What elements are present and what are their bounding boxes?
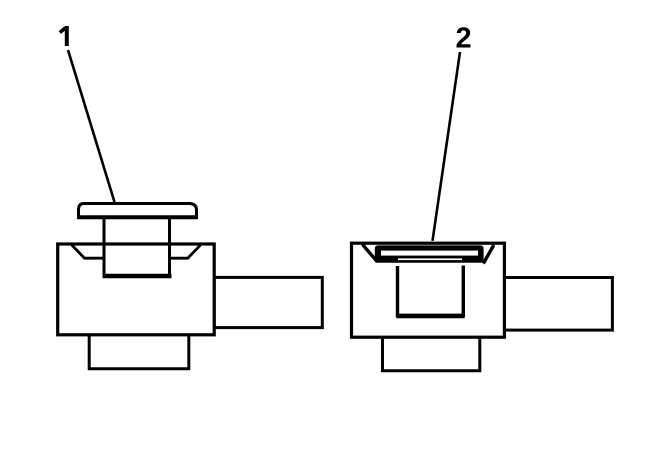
bottom tab rectangle (item 2) [383, 337, 480, 371]
leader line 2 [433, 52, 461, 241]
right chamfer of pocket [170, 245, 201, 258]
body rectangle left connector [58, 244, 215, 335]
right extension rectangle (wire housing, item 1) [214, 277, 322, 327]
label 1 digit stem [65, 26, 69, 46]
plate white slot [381, 251, 478, 256]
left chamfer diagonal (item 2) [363, 245, 378, 263]
leader line 1 [68, 50, 115, 202]
pocket cavity (item 2) [398, 266, 464, 316]
right extension rectangle (item 2 wire housing) [504, 278, 612, 331]
bottom tab rectangle (item 1) [89, 335, 189, 369]
svg-text:2: 2 [456, 23, 472, 55]
retracted cap plate (item 2) [375, 245, 484, 262]
pocket bottom thick line (item 1) [103, 274, 172, 279]
plate white sliver [398, 258, 462, 260]
body rectangle right connector [352, 243, 505, 337]
left chamfer of pocket [72, 245, 104, 258]
stem left line [103, 218, 106, 276]
cap (item 1 head) [79, 204, 197, 218]
right chamfer diagonal (item 2) [483, 245, 494, 264]
cap bottom thick edge [78, 215, 198, 219]
label 1 digit flag [60, 28, 66, 33]
stem right line [168, 218, 171, 276]
pocket bottom thick line (item 2) [397, 314, 465, 319]
